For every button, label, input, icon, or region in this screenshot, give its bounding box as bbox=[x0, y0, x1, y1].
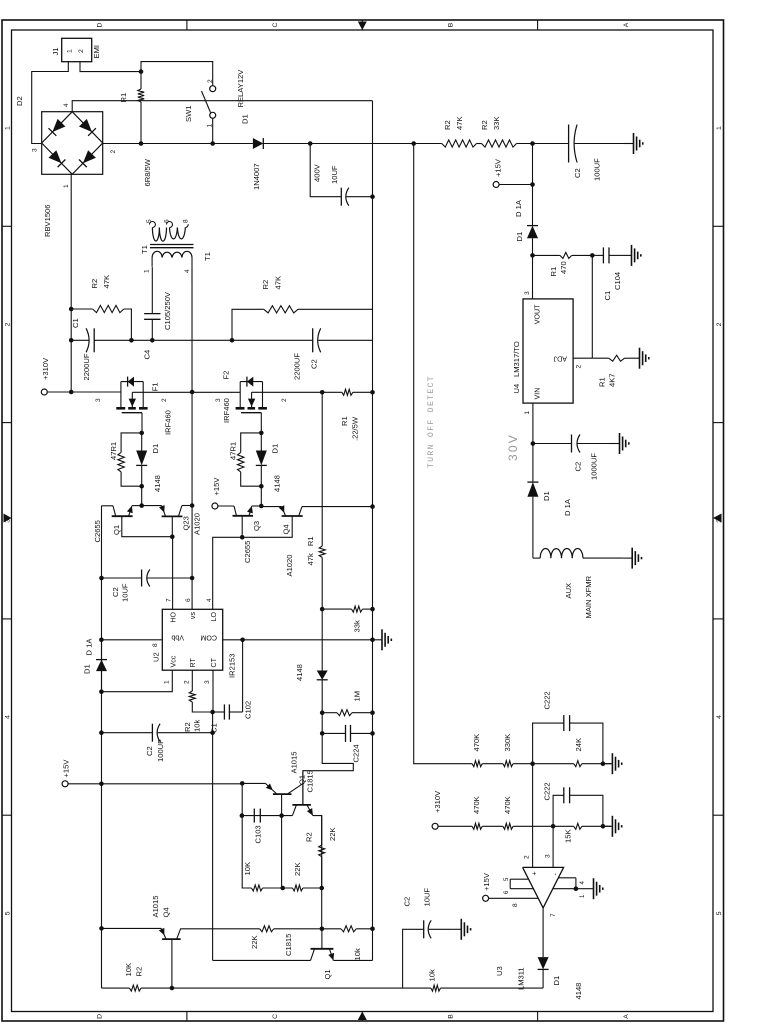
node Va/100UF bbox=[210, 730, 215, 735]
svg-text:CT: CT bbox=[210, 657, 218, 667]
node Q4C/0V bbox=[370, 504, 375, 509]
node C224/0V bbox=[370, 731, 375, 736]
svg-text:4: 4 bbox=[184, 269, 191, 273]
node 22K/line bbox=[319, 886, 324, 891]
svg-text:33K: 33K bbox=[492, 116, 501, 130]
resistor 1M bbox=[322, 712, 337, 714]
svg-text:Q1: Q1 bbox=[323, 969, 332, 979]
svg-text:MAIN XFMR: MAIN XFMR bbox=[584, 575, 593, 618]
svg-text:A1020: A1020 bbox=[193, 513, 202, 535]
svg-text:47k: 47k bbox=[306, 553, 315, 565]
svg-text:C4: C4 bbox=[143, 350, 152, 360]
capacitor C224 bbox=[322, 732, 345, 734]
node J1 pin2 / R1 bbox=[139, 69, 144, 74]
wire gate node to Q3/Q4 bbox=[260, 486, 262, 506]
svg-text:4148: 4148 bbox=[574, 983, 583, 1000]
transistor Q1 C1815 (bottom) bbox=[311, 948, 334, 950]
VS rail (T1 pin4 to IR2153 vs) bbox=[191, 267, 193, 610]
latch line Va bbox=[212, 712, 214, 960]
svg-text:IRF460: IRF460 bbox=[222, 398, 231, 423]
wire C1815t collector up bbox=[242, 815, 293, 817]
wire Q4b collector down bbox=[181, 928, 260, 930]
diode D1 4148 (F1 gate) bbox=[136, 451, 147, 466]
bridge diode top-right bbox=[52, 119, 65, 132]
svg-text:R2: R2 bbox=[183, 722, 192, 732]
svg-text:R1: R1 bbox=[119, 93, 128, 103]
svg-text:10k: 10k bbox=[353, 948, 362, 960]
svg-text:TURN OFF DETECT: TURN OFF DETECT bbox=[427, 375, 436, 468]
node 100UF line bbox=[99, 730, 104, 735]
node 1M top bbox=[320, 710, 325, 715]
svg-text:A1015: A1015 bbox=[290, 752, 299, 774]
svg-text:3: 3 bbox=[215, 398, 222, 402]
capacitor 10UF 400V bbox=[340, 188, 342, 206]
resistor 33k bbox=[322, 608, 351, 610]
svg-text:+15V: +15V bbox=[482, 872, 491, 891]
node chainB mid bbox=[551, 824, 556, 829]
svg-text:2: 2 bbox=[184, 680, 191, 684]
svg-text:1: 1 bbox=[144, 269, 151, 273]
node chainA mid bbox=[530, 761, 535, 766]
wire A1015 emitter arm bbox=[242, 782, 265, 784]
pin3 line to LM311 bbox=[552, 826, 554, 867]
svg-text:COM: COM bbox=[200, 634, 217, 642]
svg-text:R2: R2 bbox=[261, 280, 270, 290]
node CT bbox=[210, 710, 215, 715]
svg-text:B: B bbox=[448, 22, 455, 27]
svg-text:4: 4 bbox=[5, 715, 12, 719]
svg-text:30V: 30V bbox=[506, 433, 520, 461]
resistor 22K (base line) bbox=[260, 926, 274, 932]
resistor 330K bbox=[503, 761, 513, 767]
svg-text:C1: C1 bbox=[603, 291, 612, 301]
svg-text:C222: C222 bbox=[543, 782, 552, 800]
node C1 bottom bbox=[129, 338, 134, 343]
svg-text:C: C bbox=[272, 1014, 279, 1019]
capacitor C222 (a) bbox=[533, 723, 564, 764]
node VIN/1000UF bbox=[531, 441, 536, 446]
ground (main rail) bbox=[624, 143, 634, 145]
svg-text:100UF: 100UF bbox=[156, 739, 165, 762]
svg-text:R2: R2 bbox=[135, 967, 144, 977]
svg-text:1: 1 bbox=[164, 680, 171, 684]
svg-text:22K: 22K bbox=[250, 935, 259, 949]
svg-text:+15V: +15V bbox=[494, 158, 503, 177]
svg-text:VIN: VIN bbox=[534, 388, 542, 400]
svg-text:4148: 4148 bbox=[273, 475, 282, 492]
node 10UF top bbox=[99, 576, 104, 581]
svg-text:D1: D1 bbox=[271, 444, 280, 454]
svg-text:6: 6 bbox=[185, 598, 192, 602]
resistor R2 47K (rail) bbox=[442, 140, 477, 147]
switch SW1 bbox=[210, 86, 216, 92]
svg-text:C1815: C1815 bbox=[284, 934, 293, 956]
svg-text:C224: C224 bbox=[352, 744, 361, 762]
wire COM to C102 bbox=[242, 640, 244, 712]
svg-text:3: 3 bbox=[545, 854, 552, 858]
svg-text:15K: 15K bbox=[564, 829, 573, 843]
svg-text:D1: D1 bbox=[83, 664, 92, 674]
wire Q1 collector to +15 rail bbox=[102, 505, 114, 507]
svg-text:Q3: Q3 bbox=[252, 521, 261, 531]
node +15 terminal junction bbox=[99, 782, 104, 787]
resistor R1 6R8/5W bbox=[138, 89, 144, 102]
svg-text:Vcc: Vcc bbox=[170, 655, 178, 667]
bridge rectifier D2 RBV1506 bbox=[42, 112, 103, 175]
node A1015 base tap bbox=[279, 813, 284, 818]
svg-text:2: 2 bbox=[110, 150, 117, 154]
node rail/sense bbox=[411, 141, 416, 146]
MOSFET F1 IRF460 bbox=[116, 407, 125, 410]
svg-text:RELAY12V: RELAY12V bbox=[236, 69, 245, 108]
svg-text:D 1A: D 1A bbox=[85, 638, 94, 656]
resistor 22K (a) bbox=[293, 885, 303, 891]
wire C1815b base bbox=[321, 929, 323, 949]
svg-text:F2: F2 bbox=[222, 371, 231, 380]
node VS/Q23 collector bbox=[190, 503, 195, 508]
node rail/R1 bbox=[139, 141, 144, 146]
capacitor C1 2200UF bbox=[71, 339, 88, 341]
node R1470/C104 bbox=[590, 253, 595, 258]
comparator U3 LM311 bbox=[523, 867, 564, 908]
svg-text:2: 2 bbox=[524, 855, 531, 859]
wire F1 source to F2 drain bbox=[192, 391, 240, 393]
node 24K/gnd bbox=[601, 761, 606, 766]
svg-text:47R1: 47R1 bbox=[109, 442, 118, 460]
wire to cap 400V/10UF bbox=[310, 144, 341, 197]
node A1015 emitter bbox=[240, 781, 245, 786]
wire jog to R2#2 bbox=[232, 309, 264, 340]
svg-text:B: B bbox=[448, 1014, 455, 1019]
svg-text:C2: C2 bbox=[310, 359, 319, 369]
svg-text:8: 8 bbox=[512, 903, 519, 907]
svg-text:4: 4 bbox=[580, 881, 586, 885]
svg-text:A: A bbox=[623, 1014, 630, 1019]
svg-text:C2: C2 bbox=[145, 746, 154, 756]
coil AUX winding bbox=[533, 557, 540, 559]
node C103 line top bbox=[240, 813, 245, 818]
ground (chainA) bbox=[603, 763, 613, 765]
wire Q23 emitter bbox=[142, 505, 162, 507]
MOSFET F2 IRF460 bbox=[236, 407, 245, 410]
diode D1 1N4007 bbox=[253, 138, 263, 149]
svg-text:-: - bbox=[553, 873, 560, 876]
svg-text:6R8/5W: 6R8/5W bbox=[143, 158, 152, 186]
T1 secondary 6-8 bbox=[170, 228, 178, 239]
node Q3/Q4 emitters bbox=[259, 504, 264, 509]
svg-text:100UF: 100UF bbox=[593, 158, 602, 181]
connector J1 (EMI) bbox=[62, 38, 92, 61]
svg-text:1: 1 bbox=[63, 184, 70, 188]
wire LO line to C224 bbox=[321, 713, 323, 734]
resistor R1 4K7 bbox=[592, 357, 608, 359]
svg-text:3: 3 bbox=[32, 148, 39, 152]
diode D1 4148 (out) bbox=[538, 957, 549, 969]
svg-text:4: 4 bbox=[206, 598, 213, 602]
svg-text:C1: C1 bbox=[71, 318, 80, 328]
node HO/bases bbox=[170, 534, 175, 539]
emitter line to Q1b base bbox=[321, 888, 323, 929]
svg-text:22K: 22K bbox=[293, 862, 302, 876]
node 10K/22K bbox=[280, 886, 285, 891]
capacitor C1 C102 bbox=[213, 711, 224, 713]
resistor 10k (output) bbox=[431, 985, 441, 991]
svg-text:1M: 1M bbox=[353, 691, 362, 702]
pin2 line to LM311 bbox=[532, 764, 534, 868]
terminal +15V (Q3) bbox=[212, 503, 218, 509]
transistor Q1 C2655 bbox=[112, 515, 133, 517]
svg-text:10K: 10K bbox=[124, 963, 133, 977]
svg-text:22K: 22K bbox=[328, 827, 337, 841]
resistor 47R1 (F1) bbox=[121, 433, 142, 453]
svg-text:4148: 4148 bbox=[153, 475, 162, 492]
svg-text:D1: D1 bbox=[241, 114, 250, 124]
node VOUT/R1 bbox=[530, 253, 535, 258]
svg-text:C105/250V: C105/250V bbox=[163, 291, 172, 330]
capacitor C2 10UF (311) bbox=[403, 929, 424, 988]
svg-text:47K: 47K bbox=[102, 275, 111, 289]
svg-text:10UF: 10UF bbox=[330, 165, 339, 184]
svg-text:ADJ: ADJ bbox=[553, 355, 567, 363]
wire Q4b base bbox=[171, 939, 173, 988]
svg-text:D 1A: D 1A bbox=[514, 199, 523, 217]
svg-text:A1015: A1015 bbox=[151, 896, 160, 918]
svg-text:4148: 4148 bbox=[295, 664, 304, 681]
capacitor C2 1000UF bbox=[533, 443, 572, 445]
ground (4K7) bbox=[630, 357, 640, 359]
svg-text:10K: 10K bbox=[243, 862, 252, 876]
svg-text:2: 2 bbox=[281, 398, 288, 402]
svg-text:R1: R1 bbox=[340, 416, 349, 426]
svg-text:R2: R2 bbox=[443, 120, 452, 130]
transistor Q4 A1015 (bottom) bbox=[162, 938, 181, 940]
svg-text:4: 4 bbox=[63, 103, 70, 107]
IR2153 pin8 Vbb lead bbox=[101, 639, 162, 641]
node F2 gate bbox=[259, 431, 264, 436]
wire A1015 base line down bbox=[281, 816, 283, 888]
svg-text:.22/5W: .22/5W bbox=[351, 416, 360, 441]
svg-text:C2655: C2655 bbox=[243, 541, 252, 563]
svg-text:R1: R1 bbox=[549, 267, 558, 277]
node Vcc rail bbox=[99, 689, 104, 694]
svg-text:C: C bbox=[272, 22, 279, 27]
node Q3 base bbox=[240, 535, 245, 540]
bridge diode bottom-right bbox=[79, 119, 92, 132]
node 1M/0V bbox=[370, 710, 375, 715]
node cap/0V rail bbox=[370, 194, 375, 199]
IR2153 COM lead bbox=[223, 639, 373, 641]
wire bridge pin1 +310V rail bbox=[70, 174, 72, 392]
svg-text:SW1: SW1 bbox=[184, 106, 193, 122]
transistor Q3 C2655 bbox=[233, 515, 254, 517]
svg-text:C2: C2 bbox=[111, 587, 120, 597]
svg-text:5: 5 bbox=[716, 911, 723, 915]
diode D1A (317) bbox=[532, 185, 534, 226]
svg-text:10k: 10k bbox=[193, 720, 202, 732]
node 10k/0V bbox=[370, 927, 375, 932]
transistor Q4 A1020 bbox=[282, 515, 303, 517]
svg-text:IRF460: IRF460 bbox=[164, 410, 173, 435]
capacitor C222 (b) bbox=[553, 795, 564, 826]
svg-text:Q4: Q4 bbox=[282, 524, 291, 534]
svg-text:4: 4 bbox=[716, 715, 723, 719]
IR2153 RT lead + R2 10k bbox=[191, 670, 193, 691]
svg-text:2: 2 bbox=[161, 398, 168, 402]
node +310/C1 bbox=[69, 338, 74, 343]
transistor Q1 A1015 bbox=[273, 793, 292, 795]
svg-text:C2: C2 bbox=[573, 168, 582, 178]
capacitor C103 bbox=[253, 809, 255, 823]
resistor 24K bbox=[574, 761, 582, 767]
LO base line bbox=[213, 516, 293, 609]
resistor R1 .22/5W bbox=[322, 391, 342, 393]
ADJ line bbox=[591, 255, 593, 358]
wire rail to C2 bbox=[517, 143, 569, 145]
wire Q23 base bbox=[171, 516, 173, 536]
svg-text:5: 5 bbox=[5, 911, 12, 915]
wire +15 down to A1015 emitter bbox=[101, 783, 242, 785]
diode 4148 (LO line) bbox=[321, 609, 323, 670]
node C224 top bbox=[320, 731, 325, 736]
ground (10UF311) bbox=[452, 928, 462, 930]
F1 gate lead bbox=[141, 413, 143, 433]
node +310/R2 bbox=[69, 307, 74, 312]
node Vbb bbox=[99, 638, 104, 643]
resistor 470K (b1) bbox=[472, 823, 482, 829]
node rail/SW1 bbox=[210, 141, 215, 146]
svg-text:+: + bbox=[532, 871, 539, 875]
svg-text:6: 6 bbox=[504, 890, 510, 894]
svg-text:2: 2 bbox=[576, 365, 583, 369]
wire C1 node down bbox=[131, 339, 232, 341]
node 2200UF#2 top bbox=[230, 338, 235, 343]
svg-text:D: D bbox=[97, 22, 104, 27]
resistor 10K R2 bbox=[129, 985, 141, 991]
svg-text:RT: RT bbox=[189, 658, 197, 668]
svg-text:HO: HO bbox=[170, 612, 178, 623]
svg-text:C102: C102 bbox=[244, 701, 253, 719]
wire +310V to F1 drain bbox=[71, 391, 121, 393]
bridge diode bottom-left bbox=[83, 150, 96, 163]
diode D1A bootstrap bbox=[96, 660, 107, 672]
svg-text:D1: D1 bbox=[552, 976, 561, 986]
wire C1815b emitter bbox=[333, 959, 372, 961]
node F2 gate RD bbox=[259, 484, 264, 489]
resistor 47R1 (F2) bbox=[241, 433, 262, 453]
left column from +15 rail bbox=[102, 987, 130, 989]
svg-text:2: 2 bbox=[207, 79, 214, 83]
svg-text:+15V: +15V bbox=[212, 477, 221, 496]
wire J1 pin1 to bridge pin3 bbox=[32, 62, 69, 144]
svg-text:3: 3 bbox=[204, 680, 211, 684]
svg-text:Q1: Q1 bbox=[112, 525, 121, 535]
node gnd pins bbox=[574, 886, 579, 891]
capacitor C2 10UF (bootstrap) bbox=[102, 577, 142, 579]
resistor R2 47K (bleeder) bbox=[71, 308, 92, 310]
svg-text:EMI: EMI bbox=[92, 45, 101, 59]
svg-text:2200UF: 2200UF bbox=[293, 353, 302, 380]
svg-text:+310V: +310V bbox=[433, 790, 442, 813]
T1 core bbox=[150, 247, 194, 249]
wire Q3 emitter bbox=[252, 505, 261, 507]
node 15K/gnd bbox=[601, 824, 606, 829]
wire chainB down bbox=[553, 825, 574, 827]
wire Va corner to Q1b collector bbox=[213, 959, 311, 961]
svg-text:7: 7 bbox=[166, 598, 173, 602]
svg-text:D2: D2 bbox=[15, 96, 24, 106]
node COM/0V bbox=[370, 638, 375, 643]
transformer T1 primary bbox=[152, 251, 162, 257]
svg-text:8: 8 bbox=[183, 219, 190, 223]
svg-text:LO: LO bbox=[210, 612, 218, 622]
resistor 10K bbox=[252, 885, 263, 891]
svg-text:2: 2 bbox=[716, 322, 723, 326]
svg-text:3: 3 bbox=[524, 291, 531, 295]
svg-text:24K: 24K bbox=[574, 738, 583, 752]
svg-text:47R1: 47R1 bbox=[229, 442, 238, 460]
terminal +310V (main) bbox=[41, 389, 47, 395]
svg-text:LM317/TO: LM317/TO bbox=[512, 341, 521, 377]
svg-text:U2: U2 bbox=[152, 652, 161, 662]
svg-text:D 1A: D 1A bbox=[563, 498, 572, 516]
ground (COM) bbox=[373, 639, 383, 641]
svg-text:R2: R2 bbox=[480, 120, 489, 130]
wire F1 source to VS bbox=[132, 391, 192, 393]
LM311 gnd pins bbox=[558, 877, 576, 879]
svg-text:U4: U4 bbox=[512, 384, 521, 394]
svg-text:8: 8 bbox=[152, 643, 159, 647]
wire A1015 base bbox=[281, 794, 283, 816]
svg-text:R2: R2 bbox=[90, 279, 99, 289]
ground (LM311) bbox=[584, 888, 594, 890]
ground (C104) bbox=[622, 254, 632, 256]
svg-text:1N4007: 1N4007 bbox=[252, 163, 261, 190]
node COM corner bbox=[240, 638, 245, 643]
svg-text:Q23: Q23 bbox=[182, 516, 191, 530]
svg-text:400V: 400V bbox=[313, 163, 322, 182]
resistor 15K bbox=[574, 823, 582, 829]
node rail/+15V chain bbox=[530, 141, 535, 146]
wire SW1 pin1 to rail bbox=[212, 118, 214, 143]
svg-text:330K: 330K bbox=[503, 734, 512, 752]
transistor Q1 C1815 (top) bbox=[292, 804, 311, 806]
bridge diode top-left bbox=[49, 150, 62, 163]
node C1815b base bbox=[320, 927, 325, 932]
transistor Q23 A1020 bbox=[162, 515, 183, 517]
node 33k/0V bbox=[370, 607, 375, 612]
svg-text:1: 1 bbox=[66, 49, 73, 53]
svg-text:1: 1 bbox=[524, 411, 531, 415]
wire bridge pin4 to 0V rail bbox=[72, 101, 372, 112]
ADJ lead bbox=[573, 357, 592, 359]
svg-text:5: 5 bbox=[504, 877, 510, 881]
svg-text:C2: C2 bbox=[574, 462, 583, 472]
svg-text:C2655: C2655 bbox=[93, 520, 102, 542]
resistor R2 47K #2 bbox=[264, 306, 298, 313]
resistor 470K (b2) bbox=[503, 823, 513, 829]
node +15term/chain bbox=[530, 182, 535, 187]
IR2153 Vcc lead bbox=[101, 670, 172, 692]
+15V rail bbox=[101, 506, 103, 988]
wire Q4 emitter bbox=[261, 506, 281, 508]
capacitor C2 2200UF #2 bbox=[232, 339, 313, 341]
node R1.22/0V bbox=[370, 390, 375, 395]
svg-text:470K: 470K bbox=[472, 796, 481, 814]
svg-text:D1: D1 bbox=[542, 491, 551, 501]
wire Q4 collector to 0V bbox=[302, 506, 373, 508]
svg-text:R1: R1 bbox=[306, 536, 315, 546]
svg-text:33k: 33k bbox=[353, 620, 362, 632]
